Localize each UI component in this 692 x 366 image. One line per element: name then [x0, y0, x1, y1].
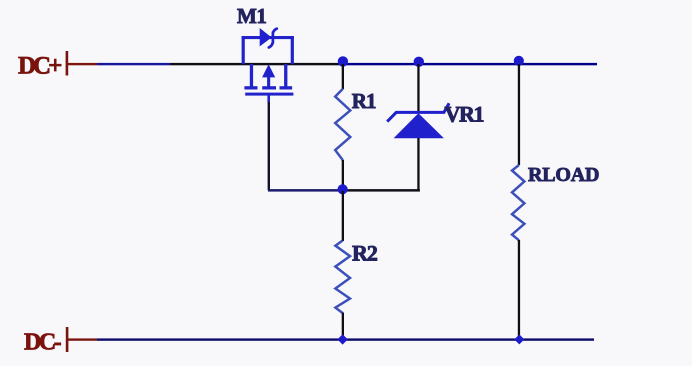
- zener diode VR1 cathode bar with bent ends: [387, 103, 449, 121]
- wire mid rail navy segment gate to node D: [268, 189, 343, 192]
- node D junction dot (R1/R2/gate): [338, 184, 348, 194]
- node E junction diamond (bottom of R2): [337, 334, 347, 344]
- wire R2 top lead: [342, 191, 344, 241]
- wire body-diode loop right vertical: [291, 36, 294, 64]
- wire gate vertical down to mid rail: [268, 102, 270, 190]
- terminal tick DC+: [66, 51, 69, 76]
- node F junction diamond (bottom of RLOAD): [514, 334, 524, 344]
- wire top rail maroon segment: [67, 63, 97, 65]
- svg-text:M1: M1: [237, 4, 266, 28]
- wire R1 top lead: [342, 64, 344, 89]
- wire R2 bottom lead: [342, 313, 344, 340]
- svg-text:DC-: DC-: [24, 330, 62, 356]
- wire body-diode loop left vertical: [242, 36, 245, 64]
- svg-text:VR1: VR1: [445, 102, 484, 127]
- transistor M1 channel segment right: [280, 86, 293, 89]
- wire RLOAD bottom lead: [518, 240, 520, 340]
- wire R1 bottom lead: [342, 160, 344, 190]
- resistor R1: [335, 89, 350, 161]
- transistor M1 drain stub: [284, 64, 287, 87]
- svg-text:R2: R2: [352, 241, 378, 266]
- transistor M1 substrate arrow: [262, 64, 275, 77]
- terminal tick DC-: [66, 327, 69, 352]
- zener diode VR1 anode triangle: [394, 113, 444, 138]
- node B junction dot (top of VR1): [414, 57, 424, 67]
- node A junction dot (top of R1): [338, 56, 348, 66]
- wire bottom rail navy segment: [97, 338, 594, 340]
- svg-text:DC+: DC+: [18, 53, 61, 80]
- wire VR1 bottom lead down to mid rail: [417, 138, 419, 191]
- node C junction dot (top of RLOAD): [514, 56, 524, 66]
- resistor R2: [335, 241, 350, 314]
- transistor M1 gate lead (blue part): [267, 94, 270, 102]
- wire top rail black segment to node A: [170, 63, 343, 65]
- body diode of M1 (cathode bar with curled ends): [269, 29, 277, 48]
- transistor M1 channel segment left: [244, 86, 257, 89]
- transistor M1 gate plate: [245, 93, 293, 96]
- svg-text:R1: R1: [352, 89, 376, 113]
- wire body-diode loop top horizontal: [242, 36, 294, 39]
- resistor RLOAD: [512, 165, 524, 240]
- body diode of M1 (triangle): [260, 28, 272, 46]
- wire bottom rail maroon segment: [67, 338, 97, 340]
- wire mid rail black segment node D to VR1 corner: [343, 189, 420, 192]
- wire RLOAD top lead: [518, 64, 520, 165]
- wire top rail navy segment: [97, 63, 170, 65]
- transistor M1 channel segment middle: [262, 86, 276, 89]
- transistor M1 source stub: [250, 64, 253, 87]
- wire top rail navy segment node A to right end: [343, 63, 597, 65]
- svg-text:RLOAD: RLOAD: [528, 164, 599, 186]
- wire VR1 top lead: [417, 64, 419, 113]
- transistor M1 substrate stem: [267, 77, 270, 87]
